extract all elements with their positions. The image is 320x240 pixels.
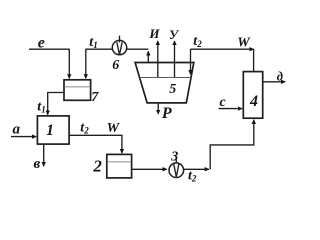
wire W drop into box 4: [253, 49, 255, 71]
box 7 internal level line: [65, 86, 90, 88]
svg-text:6: 6: [112, 58, 119, 73]
arrow P out of 5 bottom: [157, 103, 159, 114]
box 4: [243, 72, 262, 119]
svg-text:в: в: [33, 156, 40, 172]
arrow U out of 5: [174, 41, 176, 77]
wire box7 to box1 (t1): [48, 93, 64, 115]
wire a into box 1: [11, 136, 36, 138]
svg-text:W: W: [237, 36, 251, 51]
wire e-line top left: [29, 48, 69, 50]
svg-text:Р: Р: [161, 105, 172, 122]
svg-text:с: с: [219, 95, 226, 110]
wire t1 drop into box 7: [85, 49, 87, 79]
svg-text:е: е: [38, 34, 45, 51]
svg-text:а: а: [12, 122, 20, 138]
box 7: [64, 80, 91, 101]
pump 3: [169, 163, 184, 178]
pump 6: [112, 40, 126, 54]
box 1: [37, 116, 69, 144]
wire box2 to pump 3: [132, 168, 167, 170]
wire pump3 to box 4 bottom: [184, 168, 209, 170]
wire t2 drop into 5: [190, 49, 192, 74]
svg-text:1: 1: [46, 122, 54, 139]
wire e-line drop into box 7: [68, 49, 70, 79]
svg-text:д: д: [277, 69, 283, 83]
svg-text:И: И: [148, 26, 160, 41]
wire t2 from box1 to box 2: [69, 135, 122, 153]
svg-text:5: 5: [169, 82, 176, 97]
arrow I out of 5: [157, 41, 159, 77]
wire d out of box 4: [263, 81, 286, 83]
box 2: [107, 154, 132, 178]
svg-text:2: 2: [92, 157, 102, 176]
svg-text:3: 3: [170, 149, 178, 164]
svg-text:W: W: [107, 121, 121, 136]
box 2 internal level line: [107, 161, 131, 163]
wire t2 rail top right: [191, 48, 254, 50]
svg-text:7: 7: [91, 90, 99, 105]
evaporator 5 trapezoid: [135, 63, 194, 103]
wire riser from evaporator 5 to rail: [147, 51, 149, 77]
wire c into box 4: [219, 108, 243, 110]
wire t1 rail to pump 6 and on: [86, 48, 149, 50]
evaporator 5 internal line: [140, 77, 192, 79]
wire v out of box 1 bottom: [43, 144, 45, 166]
svg-text:4: 4: [249, 93, 258, 110]
